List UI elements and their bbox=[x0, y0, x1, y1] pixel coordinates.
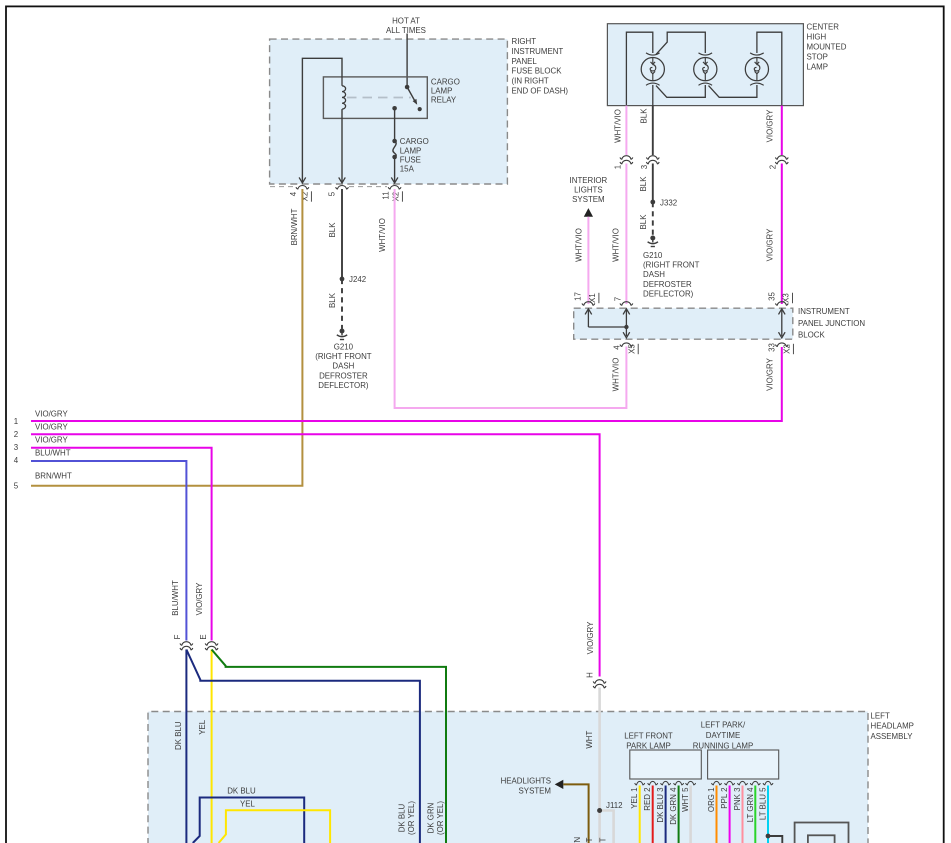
svg-text:WHT: WHT bbox=[585, 731, 594, 749]
row 1 number and label bbox=[14, 409, 69, 426]
running lamp box: LEFT PARK/DAYTIME RUNNING LAMP bbox=[708, 750, 779, 779]
svg-text:5: 5 bbox=[328, 191, 337, 196]
svg-text:VIO/GRY: VIO/GRY bbox=[766, 228, 775, 261]
label: LEFT PARK DAYTIME RUNNING LAMP bbox=[693, 721, 754, 751]
relay linkage (dashed) bbox=[347, 97, 411, 99]
svg-text:BLOCK: BLOCK bbox=[798, 330, 825, 339]
connector pin 2 of park lamp bbox=[648, 781, 658, 785]
wire PNK: running lamp pin 3 bbox=[742, 786, 744, 843]
pin label WHT 5 bbox=[681, 787, 690, 812]
svg-text:HEADLAMP: HEADLAMP bbox=[871, 722, 914, 731]
connector pin 17 X1 (top) bbox=[582, 302, 595, 306]
svg-text:END OF DASH): END OF DASH) bbox=[512, 87, 569, 96]
inline connector pin 2 bbox=[775, 156, 788, 164]
ground G210 (right) bbox=[648, 236, 658, 247]
label BLK (stop lamp) bbox=[640, 108, 649, 124]
svg-text:WHT/VIO: WHT/VIO bbox=[378, 218, 387, 252]
wire: relay coil to pin 5 bbox=[339, 109, 346, 183]
junction block internal: dot down to pin 4 X5 bbox=[623, 327, 630, 338]
label TN (cut off at bottom) bbox=[573, 836, 582, 843]
junction block internal: dot up to pin 7 bbox=[623, 309, 630, 327]
label: HOT AT ALL TIMES bbox=[386, 17, 426, 36]
pin label RED 2 bbox=[643, 788, 652, 811]
svg-text:35: 35 bbox=[768, 292, 777, 301]
label BLK (dashed section) bbox=[328, 292, 337, 308]
svg-text:DASH: DASH bbox=[643, 270, 665, 279]
pin label YEL 1 bbox=[630, 788, 639, 809]
pin label 35 X3 bbox=[768, 292, 793, 304]
svg-text:5: 5 bbox=[14, 481, 19, 490]
svg-text:DK BLU: DK BLU bbox=[398, 803, 407, 832]
svg-text:DK BLU 3: DK BLU 3 bbox=[656, 787, 665, 823]
svg-text:WHT/VIO: WHT/VIO bbox=[613, 109, 622, 143]
label WHT/VIO (below X5) bbox=[612, 358, 621, 392]
svg-text:BLK: BLK bbox=[640, 108, 649, 124]
svg-text:STOP: STOP bbox=[807, 53, 828, 62]
svg-text:E: E bbox=[199, 634, 208, 639]
park lamp box: LEFT FRONT PARK LAMP bbox=[630, 750, 702, 779]
connector pin 3 of park lamp bbox=[661, 781, 671, 785]
svg-text:DEFROSTER: DEFROSTER bbox=[643, 280, 692, 289]
wire LT GRN: running lamp pin 4 bbox=[754, 786, 756, 843]
svg-text:J112: J112 bbox=[606, 801, 623, 810]
connector pin 5 of running lamp bbox=[763, 781, 773, 785]
svg-text:INSTRUMENT: INSTRUMENT bbox=[798, 307, 850, 316]
svg-text:LIGHTS: LIGHTS bbox=[574, 186, 603, 195]
row 5 number and label bbox=[14, 472, 72, 491]
svg-text:LEFT FRONT: LEFT FRONT bbox=[624, 731, 673, 740]
pin label 33 X2 bbox=[768, 343, 794, 355]
wire WHT/VIO: stop lamp pin 1 down bbox=[625, 106, 627, 155]
pin label PNK 3 bbox=[733, 787, 742, 810]
svg-text:17: 17 bbox=[573, 292, 582, 301]
splice J242 bbox=[340, 275, 367, 284]
connector pin 4 X5 (bottom) bbox=[620, 343, 633, 347]
pin label 4 X2 bbox=[289, 191, 311, 202]
connector pin 33 X2 (bottom) bbox=[775, 343, 788, 347]
label: LEFT HEADLAMP ASSEMBLY bbox=[871, 711, 914, 741]
wire YEL: connector E down into headlamp box bbox=[211, 650, 213, 843]
svg-text:PNK 3: PNK 3 bbox=[733, 787, 742, 810]
svg-text:J242: J242 bbox=[349, 275, 366, 284]
label BLK bbox=[639, 176, 648, 192]
svg-text:MOUNTED: MOUNTED bbox=[807, 43, 847, 52]
wire BLK (dashed) J242 to ground bbox=[341, 279, 343, 329]
pin label DK BLU 3 bbox=[656, 787, 665, 823]
row 2 number and label bbox=[14, 422, 69, 439]
svg-text:2: 2 bbox=[14, 430, 18, 439]
headlamp assembly box: LEFT HEADLAMP ASSEMBLY bbox=[148, 712, 868, 843]
label DK BLU (OR YEL) bbox=[398, 801, 417, 835]
wire WHT/VIO: interior lights system to junction block pin 17 bbox=[587, 217, 589, 304]
arrow to interior lights system bbox=[584, 208, 593, 217]
svg-text:VIO/GRY: VIO/GRY bbox=[35, 409, 68, 418]
wire VIO/GRY row 2: to connector H bbox=[31, 434, 600, 676]
stop lamp box: CENTER HIGH MOUNTED STOP LAMP bbox=[607, 24, 803, 106]
svg-text:(OR YEL): (OR YEL) bbox=[407, 801, 416, 835]
wire BLK: stop lamp pin 3 down bbox=[652, 106, 654, 155]
stop lamp wiring: bulb1 top to bulb2 top bbox=[656, 32, 705, 54]
svg-text:YEL 1: YEL 1 bbox=[630, 788, 639, 809]
wire VIO/GRY: connector 2 to junction block pin 35 bbox=[781, 164, 783, 305]
wire: HOT AT ALL TIMES feed to relay bbox=[406, 34, 408, 87]
splice J112 bbox=[597, 801, 622, 813]
label YEL bbox=[198, 719, 207, 735]
svg-text:H: H bbox=[586, 672, 595, 678]
svg-text:RELAY: RELAY bbox=[431, 96, 457, 105]
wire LT BLU: running lamp pin 5 bbox=[767, 786, 769, 843]
label VIO/GRY (vertical, row2) bbox=[586, 621, 595, 654]
inline connector F bbox=[173, 634, 193, 649]
svg-text:G210: G210 bbox=[334, 343, 354, 352]
svg-text:VIO/GRY: VIO/GRY bbox=[766, 357, 775, 390]
connector pin 11 of fuse block X2 bbox=[388, 186, 401, 190]
wire DK GRN (OR YEL): connector E diagonal right and down bbox=[212, 650, 446, 843]
svg-text:INSTRUMENT: INSTRUMENT bbox=[512, 47, 564, 56]
svg-text:(OR YEL): (OR YEL) bbox=[436, 801, 445, 835]
svg-text:X5: X5 bbox=[627, 344, 636, 354]
svg-text:HIGH: HIGH bbox=[807, 33, 827, 42]
connector pin 5 of fuse block bbox=[336, 186, 349, 190]
svg-text:YEL: YEL bbox=[198, 719, 207, 735]
inline connector H bbox=[586, 672, 606, 688]
wire: fuse to pin 11 bbox=[391, 157, 398, 183]
stop lamp wiring: left feed to bulb 1 top bbox=[626, 32, 652, 105]
svg-text:(RIGHT FRONT: (RIGHT FRONT bbox=[315, 352, 372, 361]
svg-text:DEFLECTOR): DEFLECTOR) bbox=[643, 289, 694, 298]
svg-text:PANEL: PANEL bbox=[512, 57, 538, 66]
svg-text:BLK: BLK bbox=[639, 176, 648, 192]
svg-text:FUSE BLOCK: FUSE BLOCK bbox=[512, 67, 563, 76]
svg-text:3: 3 bbox=[640, 164, 649, 169]
label DK GRN (OR YEL) bbox=[427, 801, 446, 835]
label BRN/WHT (vertical) bbox=[290, 208, 299, 245]
pin label 1 bbox=[614, 165, 623, 169]
wire DK BLU bar (lower-left, inside headlamp box) bbox=[193, 798, 304, 843]
label: CENTER HIGH MOUNTED STOP LAMP bbox=[807, 23, 847, 72]
svg-text:X2: X2 bbox=[392, 192, 401, 202]
pin label 3 bbox=[640, 164, 649, 169]
splice J332 bbox=[650, 198, 677, 207]
fuse: CARGO LAMP FUSE 15A bbox=[392, 139, 397, 160]
svg-text:WHT: WHT bbox=[599, 837, 608, 843]
label VIO/GRY (stop lamp pin 2) bbox=[766, 109, 775, 142]
connector pin 4 of running lamp bbox=[750, 781, 760, 785]
wire WHT: connector H down through headlamp box bbox=[598, 688, 601, 843]
label VIO/GRY (below X2) bbox=[766, 357, 775, 390]
pin label 17 X1 bbox=[573, 292, 599, 303]
wire PPL: running lamp pin 2 bbox=[729, 786, 731, 843]
wire: relay contact to fuse bbox=[394, 108, 396, 141]
svg-text:4: 4 bbox=[289, 191, 298, 196]
svg-text:G210: G210 bbox=[643, 251, 663, 260]
svg-text:LAMP: LAMP bbox=[431, 87, 453, 96]
svg-text:SYSTEM: SYSTEM bbox=[519, 787, 551, 796]
label: INTERIOR LIGHTS SYSTEM bbox=[570, 176, 608, 204]
label: LEFT FRONT PARK LAMP bbox=[624, 731, 673, 750]
label WHT bbox=[585, 731, 594, 749]
svg-text:WHT/VIO: WHT/VIO bbox=[612, 358, 621, 392]
pin label ORG 1 bbox=[707, 788, 716, 813]
svg-text:7: 7 bbox=[614, 297, 623, 301]
wire BLK (dashed): J332 to ground bbox=[652, 202, 654, 235]
svg-text:VIO/GRY: VIO/GRY bbox=[766, 109, 775, 142]
relay switch bbox=[392, 85, 422, 112]
connector pin 5 of park lamp bbox=[686, 781, 696, 785]
pin label PPL 2 bbox=[720, 788, 729, 809]
label WHT/VIO (pin 17 wire) bbox=[574, 228, 583, 262]
svg-text:PPL 2: PPL 2 bbox=[720, 788, 729, 809]
wire TN: headlights system feed bbox=[563, 784, 588, 843]
svg-text:PARK LAMP: PARK LAMP bbox=[626, 741, 671, 750]
svg-text:DEFLECTOR): DEFLECTOR) bbox=[318, 381, 369, 390]
svg-text:WHT/VIO: WHT/VIO bbox=[612, 228, 621, 262]
svg-text:BLU/WHT: BLU/WHT bbox=[171, 580, 180, 616]
svg-text:F: F bbox=[173, 634, 182, 639]
wire BLK: connector 3 to splice J332 bbox=[652, 164, 654, 203]
label WHT/VIO (pin 7 wire) bbox=[612, 228, 621, 262]
wire branch from LT BLU splice bbox=[768, 836, 782, 843]
inline connector E bbox=[199, 634, 218, 649]
junction block internal bus with junction dot bbox=[588, 325, 628, 329]
connector pin 7 (top) bbox=[620, 302, 633, 306]
svg-text:1: 1 bbox=[14, 417, 18, 426]
svg-text:WHT/VIO: WHT/VIO bbox=[574, 228, 583, 262]
label WHT/VIO (below pin 11) bbox=[378, 218, 387, 252]
svg-text:DAYTIME: DAYTIME bbox=[706, 731, 741, 740]
stop lamp wiring: bulb3 top to right feed bbox=[757, 32, 782, 105]
stop lamp wiring: bulb1 bottom drop (BLK) bbox=[652, 85, 654, 106]
svg-text:J332: J332 bbox=[660, 198, 677, 207]
connector pin 35 X3 (top) bbox=[775, 302, 788, 306]
label VIO/GRY (pin 35 wire) bbox=[766, 228, 775, 261]
svg-text:YEL: YEL bbox=[240, 799, 256, 808]
svg-text:11: 11 bbox=[382, 191, 391, 199]
splice on LT BLU wire bbox=[766, 834, 771, 839]
svg-text:X2: X2 bbox=[783, 344, 792, 354]
wire WHT: park lamp pin 5 bbox=[689, 786, 692, 843]
svg-text:4: 4 bbox=[14, 456, 19, 465]
wire VIO/GRY: pin 33 down to row 1 bbox=[31, 347, 782, 421]
wire YEL bar (lower-left, inside headlamp box) bbox=[219, 810, 331, 843]
label WHT (branch, cut off) bbox=[599, 837, 608, 843]
svg-text:1: 1 bbox=[614, 165, 623, 169]
svg-text:(IN RIGHT: (IN RIGHT bbox=[512, 77, 549, 86]
connector pin 4 of park lamp bbox=[674, 781, 684, 785]
stop lamp wiring: bulb1 bottom to bulb2 bottom bbox=[656, 85, 705, 97]
svg-text:WHT: WHT bbox=[585, 837, 594, 843]
bulb 1 of stop lamp bbox=[641, 53, 664, 85]
wire RED: park lamp pin 2 bbox=[652, 786, 654, 843]
label BLU/WHT (vertical) bbox=[171, 580, 180, 616]
svg-text:INTERIOR: INTERIOR bbox=[570, 176, 608, 185]
label: G210 RIGHT FRONT DASH DEFROSTER DEFLECTOR (left) bbox=[315, 343, 372, 390]
svg-text:LAMP: LAMP bbox=[400, 146, 422, 155]
svg-text:DASH: DASH bbox=[332, 362, 354, 371]
label DK BLU bbox=[174, 721, 183, 750]
svg-text:ALL TIMES: ALL TIMES bbox=[386, 26, 426, 35]
wire BRN/WHT: pin 4 down and left to row 5 bbox=[31, 189, 302, 486]
connector pin 3 of running lamp bbox=[738, 781, 748, 785]
label DK BLU (bar) bbox=[227, 787, 256, 796]
nested component box (bottom right, cut off) bbox=[795, 823, 849, 843]
svg-text:WHT 5: WHT 5 bbox=[681, 787, 690, 812]
connector pin 4 of fuse block X2 bbox=[296, 186, 309, 190]
junction block: INSTRUMENT PANEL JUNCTION BLOCK box bbox=[574, 308, 793, 339]
label BLK (dashed) bbox=[639, 214, 648, 230]
svg-text:LAMP: LAMP bbox=[807, 63, 829, 72]
svg-text:PANEL JUNCTION: PANEL JUNCTION bbox=[798, 319, 865, 328]
wire: relay coil feed (top-left loop to pin 4) bbox=[299, 58, 342, 183]
label: fuse block name bbox=[512, 37, 569, 96]
wire DK BLU (OR YEL): connector F diagonal right and down bbox=[186, 650, 420, 843]
svg-text:HOT AT: HOT AT bbox=[392, 17, 420, 26]
row 4 number and label bbox=[14, 449, 71, 465]
fuse block connector face dashed line bbox=[270, 186, 387, 188]
svg-text:BLK: BLK bbox=[328, 292, 337, 308]
svg-text:VIO/GRY: VIO/GRY bbox=[35, 422, 68, 431]
svg-text:LT BLU 5: LT BLU 5 bbox=[759, 787, 768, 820]
svg-text:RUNNING LAMP: RUNNING LAMP bbox=[693, 741, 754, 750]
label: INSTRUMENT PANEL JUNCTION BLOCK bbox=[798, 307, 865, 339]
relay coil bbox=[342, 77, 346, 109]
svg-text:2: 2 bbox=[769, 165, 778, 169]
svg-text:X3: X3 bbox=[782, 293, 791, 303]
pin label LT BLU 5 bbox=[759, 787, 768, 820]
svg-text:SYSTEM: SYSTEM bbox=[572, 195, 604, 204]
wire ORG: running lamp pin 1 bbox=[716, 786, 718, 843]
svg-text:CENTER: CENTER bbox=[807, 23, 840, 32]
svg-text:3: 3 bbox=[14, 443, 19, 452]
pin label 7 bbox=[614, 297, 623, 301]
relay box: cargo lamp relay outline bbox=[323, 77, 427, 119]
inline connector pin 3 bbox=[646, 156, 659, 164]
wire WHT branch from J112 bbox=[600, 811, 614, 843]
svg-text:FUSE: FUSE bbox=[400, 156, 421, 165]
svg-text:(RIGHT FRONT: (RIGHT FRONT bbox=[643, 261, 700, 270]
svg-text:33: 33 bbox=[768, 343, 777, 352]
svg-text:DK BLU: DK BLU bbox=[227, 787, 256, 796]
svg-text:LEFT PARK/: LEFT PARK/ bbox=[701, 721, 746, 730]
label WHT/VIO (stop lamp pin 1) bbox=[613, 109, 622, 143]
svg-text:15A: 15A bbox=[400, 165, 415, 174]
stop lamp wiring: bulb2 bottom to bulb3 bottom bbox=[709, 85, 757, 97]
svg-text:BLK: BLK bbox=[328, 222, 337, 238]
bulb 3 of stop lamp bbox=[745, 53, 768, 85]
svg-text:HEADLIGHTS: HEADLIGHTS bbox=[501, 777, 551, 786]
wire DK GRN: park lamp pin 4 bbox=[678, 786, 680, 843]
fuse block: RIGHT INSTRUMENT PANEL FUSE BLOCK box bbox=[270, 39, 508, 184]
svg-text:DK GRN: DK GRN bbox=[427, 802, 436, 833]
svg-text:X1: X1 bbox=[588, 293, 597, 303]
svg-text:LT GRN 4: LT GRN 4 bbox=[746, 787, 755, 822]
wire VIO/GRY row 3: to connector E bbox=[31, 448, 212, 641]
wire DK BLU: connector F down into headlamp box bbox=[185, 650, 187, 843]
svg-text:VIO/GRY: VIO/GRY bbox=[586, 621, 595, 654]
svg-text:BLK: BLK bbox=[639, 214, 648, 230]
label: G210 (right block) bbox=[643, 251, 700, 298]
pin label 2 bbox=[769, 165, 778, 169]
wire WHT/VIO: connector 1 to junction block pin 7 bbox=[625, 164, 627, 305]
label VIO/GRY (vertical, row3) bbox=[195, 582, 204, 615]
svg-text:BRN/WHT: BRN/WHT bbox=[290, 208, 299, 245]
wire BLU/WHT row 4: to connector F bbox=[31, 461, 186, 641]
arrow to headlights system bbox=[555, 780, 564, 789]
pin label 4 X5 bbox=[613, 344, 639, 355]
svg-text:ASSEMBLY: ASSEMBLY bbox=[871, 732, 914, 741]
pin label DK GRN 4 bbox=[669, 787, 678, 825]
svg-text:TN: TN bbox=[573, 836, 582, 843]
svg-text:CARGO: CARGO bbox=[400, 137, 429, 146]
svg-text:CARGO: CARGO bbox=[431, 78, 460, 87]
label: CARGO LAMP FUSE 15A bbox=[400, 137, 429, 174]
pin label LT GRN 4 bbox=[746, 787, 755, 822]
svg-text:VIO/GRY: VIO/GRY bbox=[35, 436, 68, 445]
wire DK BLU: park lamp pin 3 bbox=[665, 786, 667, 843]
pin label 5 bbox=[328, 191, 337, 196]
svg-text:4: 4 bbox=[613, 345, 622, 350]
wire YEL: park lamp pin 1 bbox=[639, 786, 641, 843]
svg-text:LEFT: LEFT bbox=[871, 711, 890, 720]
svg-text:DK GRN 4: DK GRN 4 bbox=[669, 787, 678, 825]
label: CARGO LAMP RELAY bbox=[431, 78, 460, 105]
wire WHT/VIO: pin 11 down, right, up to junction block X5 pin 4 bbox=[395, 189, 627, 408]
row 3 number and label bbox=[14, 436, 69, 453]
label WHT (cut off at bottom) bbox=[585, 837, 594, 843]
pin label 11 X2 bbox=[382, 191, 403, 201]
label BLK bbox=[328, 222, 337, 238]
connector pin 2 of running lamp bbox=[725, 781, 735, 785]
connector pin 1 of park lamp bbox=[635, 781, 645, 785]
svg-text:RIGHT: RIGHT bbox=[512, 37, 537, 46]
svg-text:BRN/WHT: BRN/WHT bbox=[35, 472, 72, 481]
junction block internal: pin 35 to pin 33 pass-through bbox=[779, 309, 786, 338]
connector pin 1 of running lamp bbox=[712, 781, 722, 785]
ground G210 (left) bbox=[337, 329, 347, 340]
svg-text:VIO/GRY: VIO/GRY bbox=[195, 582, 204, 615]
svg-text:DK BLU: DK BLU bbox=[174, 721, 183, 750]
svg-text:BLU/WHT: BLU/WHT bbox=[35, 449, 71, 458]
label YEL (bar) bbox=[240, 799, 256, 808]
label: HEADLIGHTS SYSTEM bbox=[501, 777, 551, 796]
inline connector pin 1 bbox=[620, 156, 633, 164]
bulb 2 of stop lamp bbox=[694, 53, 717, 85]
wire VIO/GRY: stop lamp pin 2 down bbox=[781, 106, 783, 155]
wire BLK: pin 5 down to splice J242 bbox=[341, 189, 343, 279]
svg-text:ORG 1: ORG 1 bbox=[707, 788, 716, 813]
svg-text:RED 2: RED 2 bbox=[643, 788, 652, 811]
svg-text:DEFROSTER: DEFROSTER bbox=[319, 371, 368, 380]
junction block internal: pin 17 to bus bbox=[585, 309, 592, 327]
